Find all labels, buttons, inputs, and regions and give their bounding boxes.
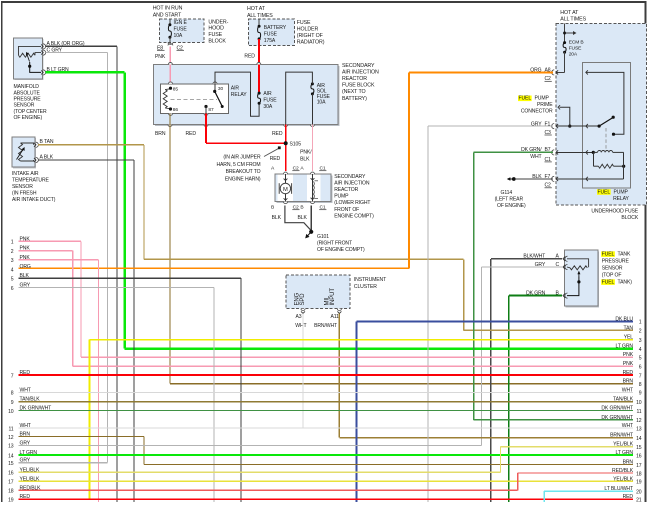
svg-text:BRN: BRN — [623, 379, 634, 385]
bump PNK entering fuse block — [168, 63, 172, 65]
svg-text:FUSE: FUSE — [208, 32, 222, 38]
svg-text:FUSE: FUSE — [263, 97, 277, 103]
svg-text:PRESSURE: PRESSURE — [14, 97, 42, 103]
pin B7 connector arrows — [552, 150, 555, 155]
svg-text:4: 4 — [11, 267, 14, 273]
svg-text:REACTOR: REACTOR — [334, 187, 358, 193]
page border frame right — [645, 1, 647, 502]
MAP sensor junction dot — [28, 65, 31, 68]
svg-text:DK GRN/WHT: DK GRN/WHT — [601, 406, 633, 412]
svg-text:ENGINE HARN): ENGINE HARN) — [225, 177, 261, 183]
wire GRY pin 15 left — [19, 462, 108, 463]
fuel sensor pin A connector — [565, 256, 568, 261]
svg-text:FUSE: FUSE — [264, 31, 278, 37]
instrument cluster pin A3 bump — [301, 309, 305, 311]
svg-text:CONNECTOR: CONNECTOR — [521, 108, 553, 114]
svg-text:ABSOLUTE: ABSOLUTE — [14, 90, 41, 96]
svg-text:86: 86 — [173, 107, 179, 113]
svg-text:9: 9 — [11, 400, 14, 406]
svg-text:15: 15 — [636, 445, 642, 451]
svg-text:5: 5 — [639, 356, 642, 362]
air pump motor white channel — [278, 175, 294, 202]
wire BLK pump right to G101 — [311, 206, 312, 232]
svg-text:GRY: GRY — [20, 283, 31, 289]
wire WHT pins 11L-13R — [19, 427, 634, 428]
MAP pin C connector — [43, 50, 46, 55]
svg-text:FUSE: FUSE — [174, 27, 188, 33]
svg-text:UNDERHOOD FUSE: UNDERHOOD FUSE — [591, 208, 638, 214]
svg-text:CLUSTER: CLUSTER — [354, 284, 377, 290]
wire WHT from A3 down — [302, 313, 303, 428]
wire BLK pump left to G101 — [285, 206, 311, 231]
svg-text:13: 13 — [8, 444, 14, 450]
svg-text:30A: 30A — [263, 104, 272, 110]
svg-text:RED: RED — [20, 494, 31, 500]
svg-text:B: B — [271, 205, 274, 211]
svg-text:B: B — [300, 205, 303, 211]
air relay pin 86 dot — [169, 107, 172, 110]
MAP sensor box — [15, 39, 44, 80]
svg-text:FUEL: FUEL — [602, 279, 615, 285]
wire PNK pin 3 left — [19, 259, 99, 260]
wire BLK from G114 to pin F7 — [515, 178, 553, 179]
ECM B fuse feed wire — [564, 23, 565, 42]
IAT pin B connector — [36, 142, 39, 147]
svg-text:RED: RED — [186, 131, 197, 137]
air pump solenoid white channel — [307, 175, 321, 202]
svg-text:6: 6 — [11, 286, 14, 292]
svg-text:RED: RED — [20, 370, 31, 376]
air pump pin A C1 bump — [311, 172, 315, 174]
wire BRN/WHT from A11 down — [339, 313, 340, 437]
svg-text:FRONT OF: FRONT OF — [334, 207, 359, 213]
svg-text:2: 2 — [639, 329, 642, 335]
svg-text:TANK): TANK) — [618, 279, 633, 285]
svg-text:87: 87 — [208, 107, 214, 113]
ECM B feed tap dot and arrow — [563, 32, 566, 35]
svg-text:RELAY: RELAY — [231, 92, 247, 98]
svg-text:AIR INTAKE DUCT): AIR INTAKE DUCT) — [12, 197, 56, 203]
MAP sensor wiper arrow — [27, 55, 30, 62]
svg-text:(NEXT TO: (NEXT TO — [342, 89, 365, 95]
svg-text:BLK: BLK — [272, 215, 282, 221]
MAP pin B connector — [43, 70, 46, 75]
svg-text:WHT: WHT — [622, 387, 633, 393]
svg-text:BATTERY: BATTERY — [264, 25, 287, 31]
bump PNK/BLK exiting fuse block — [310, 125, 314, 127]
svg-text:OF ENGINE): OF ENGINE) — [14, 115, 43, 121]
air relay switch blade — [215, 91, 223, 106]
svg-text:(TOP CENTER: (TOP CENTER — [14, 109, 47, 115]
svg-text:8: 8 — [11, 391, 14, 397]
svg-text:YEL/BLK: YEL/BLK — [613, 442, 634, 448]
svg-text:AIR: AIR — [263, 91, 272, 97]
svg-text:FUEL: FUEL — [598, 189, 611, 195]
svg-text:RED: RED — [623, 370, 634, 376]
fuel sensor wiper arrow — [578, 274, 580, 277]
svg-text:TAN: TAN — [624, 325, 634, 331]
svg-text:HOT AT: HOT AT — [560, 10, 579, 16]
IAT sensor arrow — [17, 150, 24, 160]
svg-text:LT BLU/WHT: LT BLU/WHT — [604, 486, 633, 492]
wire RED horizontal to S105 — [206, 142, 286, 144]
svg-text:YEL/BLK: YEL/BLK — [613, 476, 634, 482]
svg-text:7: 7 — [639, 373, 642, 379]
svg-text:BRN: BRN — [20, 432, 31, 438]
inner relay box in underhood fuse block — [583, 62, 631, 188]
svg-text:PNK: PNK — [20, 246, 31, 252]
svg-text:M: M — [283, 187, 288, 193]
fuel sensor pin B connector — [565, 293, 568, 298]
wire DK GRN from fuel sensor — [509, 295, 562, 297]
svg-text:BLK: BLK — [300, 156, 310, 162]
svg-text:HOOD: HOOD — [208, 26, 224, 32]
secondary air injection reactor fuse block box — [155, 66, 340, 126]
svg-text:PNK: PNK — [20, 255, 31, 261]
svg-text:21: 21 — [636, 498, 642, 503]
fuel sensor pin C connector — [565, 264, 568, 269]
svg-text:G101: G101 — [317, 234, 329, 240]
wire BRN from relay 86 down — [169, 113, 170, 383]
svg-text:G114: G114 — [501, 190, 513, 196]
svg-text:14: 14 — [636, 436, 642, 442]
svg-text:20: 20 — [636, 489, 642, 495]
svg-text:UNDER-: UNDER- — [208, 19, 228, 25]
svg-text:HOLDER: HOLDER — [297, 27, 319, 33]
wire PNK pin 1 left — [19, 241, 82, 242]
fuel tank pressure sensor box — [566, 251, 600, 307]
svg-text:SENSOR: SENSOR — [602, 265, 623, 271]
svg-text:WHT: WHT — [530, 154, 541, 160]
air relay pin 85 bump — [169, 82, 173, 84]
underhood fuse block dashed box — [556, 23, 647, 205]
svg-text:PUMP: PUMP — [334, 194, 349, 200]
air pump box — [277, 176, 333, 204]
svg-text:175A: 175A — [264, 38, 276, 44]
svg-text:1: 1 — [639, 320, 642, 326]
wire LT BLU/WHT pin 20 right — [543, 491, 545, 502]
svg-text:RED: RED — [244, 54, 255, 60]
svg-text:HOT AT: HOT AT — [247, 6, 266, 12]
battery fuse symbol — [259, 19, 260, 26]
svg-text:SENSOR: SENSOR — [14, 103, 35, 109]
svg-text:RED: RED — [272, 131, 283, 137]
svg-text:PNK: PNK — [623, 352, 634, 358]
svg-text:1: 1 — [11, 240, 14, 246]
svg-text:13: 13 — [636, 426, 642, 432]
svg-text:SECONDARY: SECONDARY — [342, 63, 375, 69]
air pump motor symbol — [280, 183, 290, 193]
svg-text:DK GRN/WHT: DK GRN/WHT — [601, 415, 633, 421]
svg-text:BREAKOUT TO: BREAKOUT TO — [226, 169, 261, 175]
wire A8 internal loop to relay contact — [586, 72, 624, 134]
svg-text:15: 15 — [8, 461, 14, 467]
svg-text:9: 9 — [639, 391, 642, 397]
svg-text:BLK: BLK — [20, 273, 30, 279]
ground G101 — [309, 230, 313, 234]
svg-text:FUEL: FUEL — [519, 96, 532, 102]
svg-text:PUMP: PUMP — [535, 96, 550, 102]
svg-text:(RIGHT OF: (RIGHT OF — [297, 33, 324, 39]
svg-text:BLOCK: BLOCK — [621, 215, 638, 221]
air relay pin 85 dot — [169, 87, 172, 90]
svg-text:10A: 10A — [174, 33, 183, 39]
svg-text:A3: A3 — [296, 314, 302, 320]
svg-text:FUSE: FUSE — [297, 20, 311, 26]
wire RED from relay 87 down to S105 level — [205, 113, 207, 143]
svg-text:BRN: BRN — [155, 131, 166, 137]
svg-text:REACTOR: REACTOR — [342, 76, 367, 82]
svg-text:LT GRN: LT GRN — [616, 450, 634, 456]
wire DK GRN/WHT from ECM B7 — [474, 152, 553, 154]
bump RED entering fuse block — [257, 63, 261, 65]
wire RED from fuse block down through S105 to pump — [285, 125, 287, 171]
IAT sensor box — [13, 138, 36, 168]
svg-text:WHT: WHT — [20, 423, 31, 429]
svg-text:PNK: PNK — [623, 361, 634, 367]
wire PNK/BLK from AIR SOL FUSE to pump — [312, 125, 313, 171]
wire ORG from left pin 4 to ECM A8 — [19, 267, 410, 269]
svg-text:RADIATOR): RADIATOR) — [297, 39, 325, 45]
wire GRY pin 6 left — [19, 287, 215, 288]
svg-text:19: 19 — [8, 498, 14, 503]
wire RED pin 7 — [19, 374, 634, 376]
wire BLK pin 5 left — [19, 278, 242, 279]
IAT sensor internal resistor — [19, 143, 23, 161]
bump RED S105 exiting fuse block — [284, 125, 288, 127]
svg-text:PNK/: PNK/ — [300, 149, 312, 155]
svg-text:20A: 20A — [569, 51, 578, 57]
MAP pin A connector — [43, 44, 46, 49]
svg-text:RED/BLK: RED/BLK — [612, 468, 634, 474]
svg-text:10: 10 — [636, 400, 642, 406]
svg-text:ALL TIMES: ALL TIMES — [247, 13, 273, 19]
wire TAN from IAT pin B — [38, 144, 144, 145]
wire DK GRN/WHT pins 10L-11R — [19, 410, 634, 411]
svg-text:18: 18 — [8, 489, 14, 495]
fuel sensor internal wiring — [567, 259, 589, 268]
svg-text:IGN E: IGN E — [174, 20, 188, 26]
wire ECM B fuse to pin A8 row — [564, 52, 565, 72]
instrument cluster dashed box — [286, 275, 350, 309]
air pump pin B C2 bump — [284, 202, 288, 204]
wire from relay pin 30 to AIR FUSE (internal) — [215, 72, 259, 116]
svg-text:14: 14 — [8, 453, 14, 459]
wire PNK pin 2 left — [19, 250, 73, 251]
wire BRN turns right to pin 8 right — [170, 383, 633, 384]
svg-text:OF ENGINE): OF ENGINE) — [497, 203, 526, 209]
wire F1 to relay switch common — [556, 126, 599, 127]
svg-text:6: 6 — [639, 364, 642, 370]
page border frame top — [1, 1, 647, 3]
air relay pin 87 dot — [204, 105, 207, 108]
label FUEL PUMP RELAY — [597, 189, 611, 195]
wire DK BLU pin 1 right — [356, 321, 358, 502]
svg-text:FUSE BLOCK: FUSE BLOCK — [342, 83, 375, 89]
svg-text:11: 11 — [636, 409, 641, 415]
fuel pump prime connector stub — [560, 107, 570, 126]
svg-text:19: 19 — [636, 480, 642, 486]
svg-text:DK GRN/WHT: DK GRN/WHT — [20, 406, 52, 412]
svg-text:3: 3 — [11, 258, 14, 264]
svg-text:S105: S105 — [290, 141, 302, 147]
wire LT GRN from MAP pin B — [46, 71, 125, 74]
svg-text:ENGINE COMPT): ENGINE COMPT) — [334, 213, 374, 219]
MAP sensor internal wiring — [19, 46, 42, 55]
air pump motor wire bottom — [285, 194, 286, 202]
svg-text:3: 3 — [639, 338, 642, 344]
wire TAN/BLK pins 9L-10R — [19, 401, 634, 402]
IGN E fuse symbol — [169, 19, 170, 25]
wire YEL pin 3 right — [90, 339, 634, 341]
wire from AIR SOL FUSE bottom (internal) — [312, 94, 313, 125]
svg-text:FUSE: FUSE — [569, 45, 582, 51]
svg-text:PNK: PNK — [20, 236, 31, 242]
fuel pump relay dashed actuation line — [605, 128, 607, 152]
svg-text:5: 5 — [11, 277, 14, 283]
svg-text:GRY: GRY — [20, 458, 31, 464]
svg-text:GRY: GRY — [20, 440, 31, 446]
svg-text:FUEL: FUEL — [602, 251, 615, 257]
wire PNK from IGN fuse to relay pin 85 — [170, 47, 171, 84]
fuel sensor junction dot — [577, 280, 580, 283]
svg-text:7: 7 — [11, 373, 14, 379]
air pump pin A C2 bump — [284, 172, 288, 174]
svg-text:RELAY: RELAY — [613, 196, 629, 202]
label FUEL TANK PRESSURE SENSOR (TOP OF FUEL TANK) — [601, 251, 615, 257]
air relay pin 87 bump — [204, 113, 208, 115]
wire RED/BLK pin 18 left — [19, 490, 518, 491]
svg-text:BATTERY): BATTERY) — [342, 96, 367, 102]
wire GRY from fuel sensor — [482, 266, 562, 267]
svg-text:10: 10 — [8, 409, 14, 415]
svg-text:MANIFOLD: MANIFOLD — [14, 84, 40, 90]
svg-text:18: 18 — [636, 471, 642, 477]
svg-text:ECM B: ECM B — [569, 39, 584, 45]
wire LT GRN pins 14L-16R — [19, 454, 634, 456]
air relay box — [160, 84, 228, 114]
svg-text:YEL/BLK: YEL/BLK — [20, 467, 41, 473]
svg-text:SENSOR: SENSOR — [12, 184, 33, 190]
page border frame left — [1, 1, 3, 502]
svg-text:TAN/BLK: TAN/BLK — [613, 397, 634, 403]
fuel pump relay switch — [598, 125, 601, 128]
wire GRY pin 13 left — [19, 445, 482, 446]
air pump solenoid coil — [313, 182, 314, 199]
svg-text:OF ENGINE COMPT): OF ENGINE COMPT) — [317, 247, 365, 253]
svg-text:ALL TIMES: ALL TIMES — [560, 17, 586, 23]
svg-text:INTAKE AIR: INTAKE AIR — [12, 171, 39, 177]
instrument cluster pin A11 bump — [337, 309, 341, 311]
svg-text:PUMP: PUMP — [614, 189, 629, 195]
svg-text:2: 2 — [11, 249, 14, 255]
svg-text:RED/BLK: RED/BLK — [20, 485, 42, 491]
svg-text:BRN: BRN — [623, 460, 634, 466]
svg-text:4: 4 — [639, 347, 642, 353]
wire BRN pin 12 left — [19, 436, 145, 437]
ECM B FUSE 20A symbol — [563, 41, 566, 44]
battery fuse dashed box — [248, 19, 294, 46]
svg-text:TEMPERATURE: TEMPERATURE — [12, 177, 50, 183]
svg-text:RED: RED — [270, 156, 281, 162]
svg-text:WHT: WHT — [622, 423, 633, 429]
MAP sensor internal resistor — [19, 53, 36, 57]
wire BLK/WHT from fuel sensor — [491, 258, 562, 259]
svg-text:30: 30 — [218, 86, 224, 92]
wire F7 return row — [556, 178, 624, 179]
wire from AIR SOL FUSE top to bus (internal) — [286, 72, 313, 124]
wire BLK(OR ORG) from MAP pin A — [46, 46, 118, 47]
air pump pin B C1 bump — [311, 202, 315, 204]
pin F7 connector arrows — [552, 176, 555, 181]
svg-text:17: 17 — [8, 480, 14, 486]
svg-text:AIR: AIR — [231, 86, 240, 92]
svg-text:BRN/WHT: BRN/WHT — [314, 323, 337, 329]
svg-text:10A: 10A — [317, 100, 326, 106]
wire BLK from IAT pin A — [38, 159, 134, 160]
svg-text:11: 11 — [8, 426, 13, 432]
splice S105 — [284, 141, 288, 145]
svg-text:HARN, 5 CM FROM: HARN, 5 CM FROM — [216, 162, 260, 168]
fuel pump relay coil and resistor — [556, 152, 593, 153]
air relay pin 86 bump — [169, 113, 173, 115]
svg-text:12: 12 — [636, 418, 642, 424]
svg-text:PRESSURE: PRESSURE — [602, 258, 630, 264]
svg-text:BLK: BLK — [298, 215, 308, 221]
svg-text:YEL: YEL — [624, 335, 634, 341]
svg-text:A11: A11 — [330, 314, 339, 320]
wire YEL/BLK pins 17L-19R — [19, 481, 634, 482]
svg-text:BLOCK: BLOCK — [208, 39, 226, 45]
svg-text:SECONDARY: SECONDARY — [334, 174, 366, 180]
label FUEL PUMP PRIME CONNECTOR — [518, 96, 532, 102]
wire YEL/BLK pin 16 left — [19, 472, 501, 473]
svg-text:LT GRN: LT GRN — [616, 344, 634, 350]
air relay switch pin 30 — [215, 84, 216, 91]
IGN fuse output connector arcs — [168, 43, 173, 45]
svg-text:(IN AIR JUMPER: (IN AIR JUMPER — [223, 155, 261, 161]
bump BRN exiting fuse block — [168, 125, 172, 127]
pin F1 connector arrows — [552, 123, 555, 128]
svg-text:SPD: SPD — [300, 293, 306, 306]
svg-text:INSTRUMENT: INSTRUMENT — [354, 277, 386, 283]
svg-text:TAN/BLK: TAN/BLK — [20, 397, 41, 403]
svg-text:ORG: ORG — [20, 264, 31, 270]
svg-text:17: 17 — [636, 463, 642, 469]
svg-text:PNK: PNK — [155, 54, 166, 60]
wire GRY from ECM F1 down — [428, 126, 553, 127]
svg-text:INPUT: INPUT — [330, 288, 336, 306]
air pump solenoid wire — [312, 174, 313, 202]
svg-text:BRN/WHT: BRN/WHT — [610, 433, 633, 439]
ground G114 — [512, 177, 516, 181]
svg-text:AIR INJECTION: AIR INJECTION — [342, 69, 379, 75]
svg-text:(TOP OF: (TOP OF — [602, 272, 622, 278]
svg-text:(IN FRESH: (IN FRESH — [12, 190, 37, 196]
svg-text:(RIGHT FRONT: (RIGHT FRONT — [317, 241, 352, 247]
svg-text:WHT: WHT — [20, 387, 31, 393]
svg-text:AIR INJECTION: AIR INJECTION — [334, 181, 370, 187]
svg-text:LT GRN: LT GRN — [20, 450, 38, 456]
air pump motor wire top — [285, 174, 286, 183]
wire GRY from MAP pin C — [46, 52, 108, 53]
AIR FUSE 30A symbol — [258, 92, 261, 95]
wire WHT pins 8L-9R — [19, 392, 634, 393]
svg-text:85: 85 — [173, 86, 179, 92]
svg-text:(LOWER RIGHT: (LOWER RIGHT — [334, 200, 370, 206]
wire RED battery feed to AIR FUSE — [258, 39, 260, 93]
bump RED 87 exiting fuse block — [204, 125, 208, 127]
